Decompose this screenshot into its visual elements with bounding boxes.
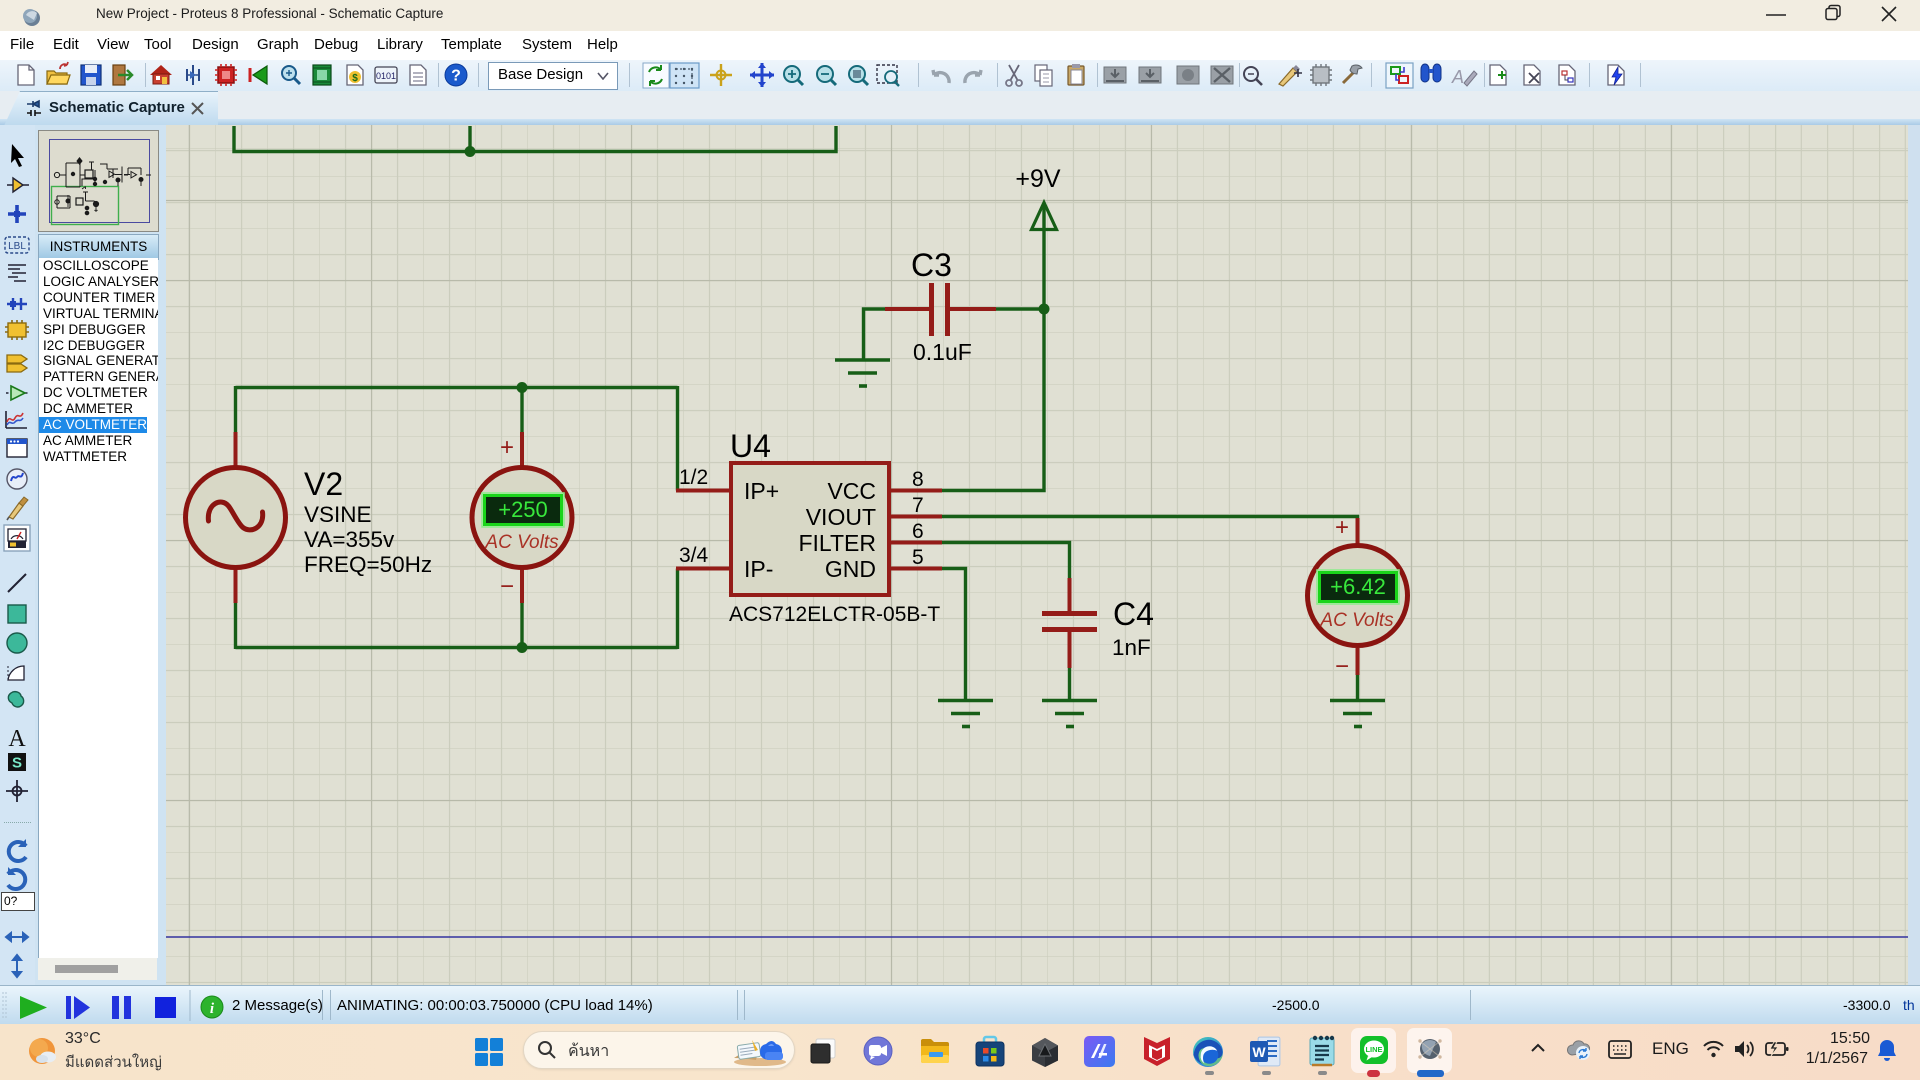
wire C3 left bbox=[864, 309, 887, 359]
voltmeter1 pins bbox=[520, 432, 524, 603]
svg-text:ACS712ELCTR-05B-T: ACS712ELCTR-05B-T bbox=[729, 603, 940, 626]
window buttons bbox=[1764, 4, 1904, 26]
ground (C4) bbox=[1042, 701, 1097, 727]
U4 chip body bbox=[731, 463, 889, 595]
ground (U4 pin5) bbox=[938, 701, 993, 727]
svg-text:0.1uF: 0.1uF bbox=[913, 339, 972, 365]
svg-text:$: $ bbox=[352, 73, 358, 84]
task view bbox=[809, 1037, 837, 1065]
svg-text:C4: C4 bbox=[1113, 596, 1154, 632]
junction node loop top bbox=[517, 382, 528, 393]
voltmeter2 display bbox=[1317, 570, 1399, 604]
svg-text:LBL: LBL bbox=[8, 241, 26, 252]
svg-text:8: 8 bbox=[912, 468, 924, 491]
C3 pins bbox=[885, 307, 996, 311]
svg-text:+: + bbox=[1335, 514, 1349, 541]
svg-text:A: A bbox=[1451, 67, 1464, 87]
svg-text:FREQ=50Hz: FREQ=50Hz bbox=[304, 552, 432, 577]
U4 pin names bbox=[744, 478, 876, 582]
svg-text:+: + bbox=[500, 434, 514, 461]
wire loop bottom horizontal bbox=[236, 646, 678, 649]
word bbox=[1250, 1036, 1281, 1067]
chat bbox=[863, 1036, 893, 1066]
svg-text:U4: U4 bbox=[730, 428, 771, 464]
svg-text:−: − bbox=[1335, 653, 1349, 680]
unity hub bbox=[1029, 1036, 1061, 1068]
LINE tile bbox=[1351, 1028, 1396, 1073]
menu bar bbox=[0, 31, 1920, 60]
wire GND pin to ground bbox=[941, 569, 966, 700]
U4 pin numbers bbox=[679, 466, 924, 569]
wire top bus bbox=[234, 126, 836, 152]
explorer bbox=[919, 1036, 951, 1066]
svg-text:0101: 0101 bbox=[376, 71, 396, 81]
svg-text:S: S bbox=[12, 755, 22, 772]
schematic canvas bbox=[166, 125, 1908, 985]
svg-text:?: ? bbox=[451, 68, 461, 85]
wire to pin 3/4 bbox=[676, 569, 679, 650]
wire C3 right bbox=[995, 307, 1044, 310]
svg-text:+9V: +9V bbox=[1015, 165, 1061, 193]
svg-text:3/4: 3/4 bbox=[679, 544, 709, 567]
store bbox=[974, 1035, 1006, 1068]
svg-text:7: 7 bbox=[912, 494, 924, 517]
svg-text:1/2: 1/2 bbox=[679, 466, 708, 489]
ground (C3) bbox=[835, 360, 890, 386]
C4 capacitor plates bbox=[1042, 614, 1097, 630]
running indicators bbox=[1205, 1071, 1214, 1075]
/A app bbox=[1084, 1036, 1115, 1067]
svg-text:LINE: LINE bbox=[1365, 1045, 1382, 1054]
left panel bbox=[35, 125, 166, 985]
wire voltmeter1 bottom bbox=[520, 602, 523, 649]
wire VCC to +9V rail bbox=[941, 205, 1044, 491]
svg-text:AC Volts: AC Volts bbox=[1319, 610, 1394, 631]
voltmeter2 body bbox=[1308, 546, 1408, 646]
power symbol +9V bbox=[1032, 203, 1057, 230]
svg-text:AC Volts: AC Volts bbox=[484, 532, 559, 553]
junction node loop bottom bbox=[517, 642, 528, 653]
svg-text:VA=355v: VA=355v bbox=[304, 527, 395, 552]
status bar bbox=[0, 985, 1920, 1026]
voltmeter1 body bbox=[472, 468, 572, 568]
junction node +9V rail bbox=[1039, 304, 1050, 315]
svg-text:C3: C3 bbox=[911, 247, 952, 283]
search pill bbox=[523, 1031, 795, 1069]
notepad bbox=[1308, 1035, 1336, 1068]
wire voltmeter1 top bbox=[520, 386, 523, 433]
wire VIOUT to voltmeter2 bbox=[941, 517, 1358, 521]
svg-text:VSINE: VSINE bbox=[304, 502, 372, 527]
svg-text:IP-: IP- bbox=[744, 556, 773, 582]
svg-text:FILTER: FILTER bbox=[798, 530, 876, 556]
svg-text:VCC: VCC bbox=[827, 478, 876, 504]
V2 labels bbox=[304, 466, 432, 577]
svg-text:+250: +250 bbox=[498, 497, 548, 522]
V2 source pins (red stubs) bbox=[234, 432, 238, 603]
sheet border (blue) bbox=[166, 936, 1908, 938]
wire voltmeter2 bottom bbox=[1356, 674, 1359, 699]
C4 pins bbox=[1068, 578, 1072, 668]
tray bbox=[1530, 1042, 1546, 1054]
U4 pins 8,7,6,5 bbox=[889, 491, 942, 569]
ground (voltmeter2) bbox=[1330, 701, 1385, 727]
toolbar bbox=[0, 60, 1920, 92]
voltmeter1 display bbox=[482, 493, 564, 527]
proteus tile (active) bbox=[1407, 1028, 1452, 1073]
junction node top bus bbox=[465, 146, 476, 157]
svg-text:+6.42: +6.42 bbox=[1330, 574, 1386, 599]
edge bbox=[1192, 1036, 1224, 1068]
wire FILTER to C4 bbox=[941, 543, 1070, 580]
wire to pin 1/2 bbox=[676, 386, 679, 491]
preview glyphs row2 bbox=[55, 187, 99, 215]
taskbar bbox=[0, 1024, 1920, 1080]
voltmeter2 pins bbox=[1356, 518, 1360, 675]
V2 sine source body bbox=[186, 468, 286, 568]
wire loop top horizontal bbox=[236, 386, 678, 389]
U4 pins 1/2 3/4 bbox=[676, 491, 731, 569]
preview green viewport bbox=[52, 187, 119, 225]
weather widget bbox=[27, 1036, 59, 1068]
svg-text:IP+: IP+ bbox=[744, 478, 779, 504]
C3 capacitor plates bbox=[932, 283, 948, 336]
left tool strip bbox=[0, 125, 35, 985]
preview blue sheet bbox=[50, 140, 150, 223]
wire V2 bottom vertical bbox=[234, 602, 237, 649]
preview glyphs row1 bbox=[54, 158, 151, 187]
svg-text:W: W bbox=[1252, 1044, 1266, 1060]
svg-text:1nF: 1nF bbox=[1112, 635, 1151, 660]
svg-text:6: 6 bbox=[912, 520, 924, 543]
mcafee bbox=[1142, 1035, 1172, 1068]
Base Design combo bbox=[488, 62, 618, 90]
wire top bus tap bbox=[468, 126, 471, 152]
svg-text:VIOUT: VIOUT bbox=[806, 504, 876, 530]
svg-text:GND: GND bbox=[825, 556, 876, 582]
svg-text:A: A bbox=[8, 726, 26, 752]
title bar bbox=[0, 0, 1920, 31]
wire C4 bottom bbox=[1068, 667, 1071, 699]
svg-text:V2: V2 bbox=[304, 466, 343, 502]
tab bar bbox=[0, 91, 1920, 125]
start button bbox=[474, 1037, 504, 1067]
svg-text:5: 5 bbox=[912, 546, 924, 569]
V2 sine squiggle bbox=[208, 502, 262, 530]
svg-text:−: − bbox=[500, 573, 514, 600]
wire V2 top vertical bbox=[234, 386, 237, 433]
